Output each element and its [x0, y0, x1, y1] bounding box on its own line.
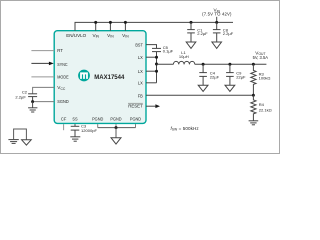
capacitor C8 [213, 22, 234, 42]
capacitor C3 [71, 124, 98, 137]
node dot C1 tap [190, 21, 193, 24]
ground (triangle) for C8 [212, 42, 222, 48]
svg-text:2.2µF: 2.2µF [197, 31, 208, 36]
svg-text:12000pF: 12000pF [81, 128, 98, 133]
capacitor C4 [199, 64, 219, 85]
wire PGND bus [98, 127, 136, 129]
node VOUT label [253, 50, 269, 60]
Maxim logo [78, 70, 90, 82]
wire FB [146, 94, 253, 96]
wire LX1 stub [146, 56, 157, 58]
svg-text:SGND: SGND [57, 99, 69, 104]
resistor R4 [251, 95, 272, 121]
svg-text:22µF: 22µF [236, 75, 246, 80]
capacitor C2 [15, 90, 37, 102]
wire SGND stub [33, 101, 55, 103]
node dot PGND [115, 126, 118, 129]
svg-text:100kΩ: 100kΩ [259, 75, 271, 80]
node dot C4 tap [202, 63, 205, 66]
node dot VIN pin1 [94, 21, 97, 24]
svg-text:BST: BST [135, 42, 143, 47]
node dot C8 tap [215, 21, 218, 24]
node dot LX2 [155, 70, 158, 73]
svg-text:PGND: PGND [92, 117, 104, 122]
svg-text:CF: CF [61, 117, 67, 122]
svg-text:VIN: VIN [122, 33, 129, 39]
node dot LX1 [155, 56, 158, 59]
svg-text:EN/UVLO: EN/UVLO [66, 33, 86, 38]
wire SYNC input with arrow [31, 62, 53, 66]
ground (bars) for C3 [70, 137, 80, 141]
svg-text:LX: LX [138, 80, 144, 85]
svg-text:10µH: 10µH [179, 54, 189, 59]
ground (triangle) for C4 [198, 85, 208, 91]
svg-text:LX: LX [138, 69, 144, 74]
svg-text:0.1µF: 0.1µF [163, 49, 174, 54]
wire BST pin [146, 45, 157, 49]
ground tie: bars ground [8, 140, 18, 144]
wire VIN pin 2 stem [109, 22, 111, 30]
node dot C9 tap [228, 63, 231, 66]
svg-text:PGND: PGND [130, 117, 142, 122]
svg-text:R4: R4 [259, 102, 265, 107]
ground (triangle) for C9 [225, 85, 235, 91]
wire VCC stub [33, 87, 55, 93]
pin RESET label (active low) [128, 103, 143, 108]
wire VIN pin 3 stem [124, 22, 126, 30]
svg-text:SS: SS [72, 117, 77, 122]
ground (bars) for C2 [28, 102, 37, 112]
wire VIN pin 1 stem [95, 22, 97, 30]
resistor R3 [251, 64, 271, 95]
ground (triangle) PGND [111, 138, 121, 144]
capacitor C9 [226, 64, 246, 85]
capacitor C5 [152, 45, 174, 54]
svg-text:VCC: VCC [57, 85, 66, 91]
svg-text:2.2µF: 2.2µF [15, 94, 26, 99]
VIN label stem wire [216, 17, 218, 23]
svg-text:22µF: 22µF [210, 75, 220, 80]
wire PGND to ground [115, 128, 117, 138]
svg-text:(7.5V TO 42V): (7.5V TO 42V) [202, 12, 232, 17]
wire LX2 stub [146, 70, 157, 72]
wire LX to inductor [157, 63, 174, 65]
inductor L1 [173, 50, 194, 64]
border frame [1, 1, 280, 154]
svg-text:fSW = 500kHz: fSW = 500kHz [171, 126, 200, 132]
svg-text:RT: RT [57, 48, 63, 53]
wire PGND1 stem [97, 124, 99, 128]
svg-text:PGND: PGND [110, 117, 122, 122]
capacitor C1 [187, 22, 208, 42]
node dot R3 tap [252, 63, 255, 66]
node dot SGND/C2 [31, 100, 34, 103]
ground (bars) for R4 [249, 121, 259, 125]
node dot VIN pin3 [124, 21, 127, 24]
node dot FB junction [252, 94, 255, 97]
wire LX bus vertical [156, 52, 158, 83]
svg-text:2.2µF: 2.2µF [223, 31, 234, 36]
wire CF stub [63, 124, 65, 130]
svg-text:VIN: VIN [92, 33, 99, 39]
svg-text:SYNC: SYNC [57, 62, 68, 67]
svg-text:LX: LX [138, 55, 144, 60]
wire LX3 stub [146, 82, 157, 84]
wire PGND3 stem [135, 124, 137, 128]
ground (triangle) for C1 [186, 42, 196, 48]
svg-text:RESET: RESET [128, 103, 143, 108]
node VIN supply label [202, 8, 232, 17]
VIN input rail wire [75, 22, 233, 30]
svg-text:VIN: VIN [107, 33, 114, 39]
node dot VIN pin2 [109, 21, 112, 24]
ground tie wire [14, 129, 27, 140]
wire RESET output with arrow [146, 104, 160, 108]
svg-text:22.1kΩ: 22.1kΩ [259, 108, 272, 113]
svg-text:MODE: MODE [57, 75, 68, 80]
wire VOUT rail [195, 63, 267, 65]
svg-text:MAX17544: MAX17544 [94, 74, 125, 81]
wire PGND2 stem [115, 124, 117, 128]
svg-text:5V, 3.5A: 5V, 3.5A [253, 55, 269, 60]
node dot inductor branch [155, 63, 158, 66]
wire MODE stub [31, 76, 54, 78]
svg-text:FB: FB [138, 94, 143, 99]
IC U1 MAX17544 body [54, 31, 146, 124]
wire RT stub [31, 50, 54, 52]
ground tie: triangle ground [22, 140, 32, 145]
